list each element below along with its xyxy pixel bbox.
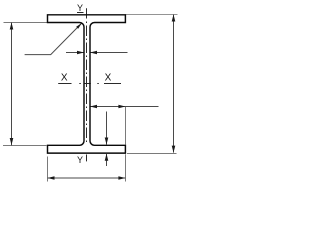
svg-text:Y: Y: [77, 3, 83, 13]
svg-text:X: X: [105, 73, 112, 84]
svg-text:Y: Y: [77, 155, 83, 165]
svg-text:X: X: [61, 73, 68, 84]
